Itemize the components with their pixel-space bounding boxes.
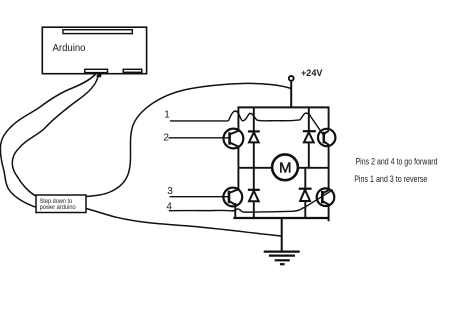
svg-text:Pins 1 and 3 to reverse: Pins 1 and 3 to reverse: [354, 174, 427, 184]
svg-text:2: 2: [163, 133, 169, 144]
svg-text:Pins 2 and 4 to go forward: Pins 2 and 4 to go forward: [356, 156, 438, 166]
svg-text:M: M: [279, 160, 292, 177]
svg-text:+24V: +24V: [301, 68, 323, 79]
svg-text:3: 3: [167, 186, 173, 197]
svg-text:1: 1: [164, 109, 170, 120]
svg-text:4: 4: [166, 201, 172, 212]
svg-text:Arduino: Arduino: [53, 43, 86, 54]
svg-text:power arduino: power arduino: [40, 204, 76, 211]
